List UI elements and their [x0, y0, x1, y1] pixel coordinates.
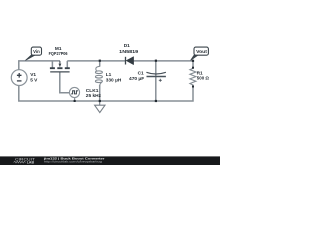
wire top rail middle (M1 drain to D1 cathode)	[67, 60, 125, 62]
node R1 bottom pin	[192, 86, 194, 88]
svg-text:1N5819: 1N5819	[119, 49, 138, 55]
clock source CLK1	[69, 87, 79, 97]
node C1 top junction	[155, 60, 157, 62]
resistor R1	[190, 68, 196, 87]
wire top rail left (V1 to M1 source)	[19, 61, 60, 70]
ground	[95, 101, 105, 113]
voltage source V1	[11, 70, 27, 86]
wire C1 top lead	[155, 61, 157, 77]
svg-text:500 Ω: 500 Ω	[197, 76, 209, 82]
svg-text:http://circuitlab.com/c/bsvqsk: http://circuitlab.com/c/bsvqskarbug	[44, 159, 102, 163]
wire CLK1 bottom stub	[74, 98, 76, 102]
capacitor C1	[146, 72, 166, 82]
svg-text:L1: L1	[106, 72, 112, 78]
svg-text:C1: C1	[138, 70, 144, 76]
node Vout anchor junction	[192, 60, 194, 62]
svg-text:25 kHz: 25 kHz	[86, 93, 102, 99]
wire top rail right (D1 anode to R1/Vout)	[134, 61, 193, 68]
wire L1 top lead	[99, 61, 101, 67]
node L1 bottom junction	[99, 100, 101, 102]
wire gate lead M1 to CLK1	[60, 72, 71, 93]
svg-text:330 µH: 330 µH	[106, 77, 122, 83]
footer bar	[0, 156, 220, 165]
svg-text:V1: V1	[30, 72, 36, 78]
wire L1 bottom lead	[99, 85, 101, 101]
MOSFET M1	[50, 61, 70, 72]
node CLK1 bottom junction	[74, 100, 76, 102]
net flag Vout	[191, 47, 209, 60]
logo CircuitLab	[14, 157, 36, 164]
svg-text:Vout: Vout	[196, 49, 207, 54]
svg-text:D1: D1	[124, 43, 130, 49]
node L1 top junction	[99, 60, 101, 62]
wire V1 bottom to bottom rail	[19, 85, 193, 101]
svg-text:FQP27P06: FQP27P06	[49, 51, 68, 57]
svg-text:Vin: Vin	[33, 49, 40, 54]
node C1 bottom junction	[155, 100, 157, 102]
svg-text:5 V: 5 V	[30, 77, 38, 83]
wire C1 bottom lead	[155, 76, 157, 101]
svg-text:LAB: LAB	[27, 161, 35, 165]
inductor L1	[95, 66, 102, 85]
net flag Vin	[25, 47, 41, 60]
svg-text:470 µF: 470 µF	[129, 76, 144, 82]
node R1 top pin	[192, 67, 194, 69]
diode D1	[126, 57, 134, 65]
